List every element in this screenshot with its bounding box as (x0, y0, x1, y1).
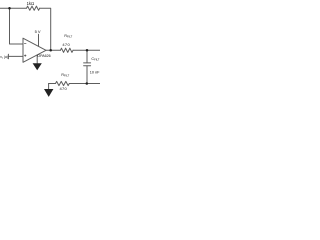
label OPA626 (37, 54, 50, 58)
op-amp U1 triangle (23, 38, 46, 62)
label 10nF (90, 71, 100, 75)
label 1kΩ (27, 1, 35, 6)
ground op-amp (33, 63, 42, 70)
label RFILT bottom (61, 73, 69, 78)
node junction dot A (8, 7, 11, 10)
wire capacitor top stem (86, 50, 88, 62)
node junction dot output (49, 49, 52, 52)
label plus input (24, 55, 26, 57)
svg-text:RFILT: RFILT (64, 34, 72, 39)
node junction dot cap-bottom (86, 82, 89, 85)
wire bottom rail left (49, 83, 56, 85)
svg-text:v₁ (a): v₁ (a) (0, 55, 8, 59)
node junction dot filter (86, 49, 89, 52)
svg-text:5 V: 5 V (35, 29, 41, 34)
svg-text:OPA626: OPA626 (37, 54, 50, 58)
wire left feedback vertical (10, 8, 24, 44)
capacitor CFILT plates (84, 63, 91, 66)
wire output rail left (46, 49, 60, 51)
label 470 bottom (60, 86, 68, 91)
svg-text:CFILT: CFILT (91, 57, 99, 62)
wire output rail right (73, 49, 100, 51)
wire bottom rail right (70, 83, 100, 85)
resistor RFILT zigzag (60, 48, 73, 52)
resistor R bottom 470 zigzag (56, 81, 70, 85)
wire bottom ground stem (48, 84, 50, 90)
wire top-left input segment (0, 7, 27, 9)
svg-text:RFILT: RFILT (61, 73, 69, 78)
wire capacitor bottom stem (86, 66, 88, 84)
label minus input (24, 42, 26, 44)
node input terminal tick (7, 54, 9, 59)
svg-text:10 nF: 10 nF (90, 71, 100, 75)
resistor R1 1kΩ zigzag (27, 6, 40, 10)
label 5V (35, 29, 41, 34)
wire non-inverting input (8, 55, 23, 57)
svg-text:1kΩ: 1kΩ (27, 1, 35, 6)
wire 5V supply (38, 34, 40, 46)
label CFILT (91, 57, 99, 62)
ground bottom resistor (44, 89, 53, 97)
wire top feedback to corner (40, 8, 51, 50)
label RFILT top (64, 34, 72, 39)
label 470 top (62, 42, 70, 47)
wire op-amp ground stem (36, 55, 38, 63)
label vin (0, 55, 8, 59)
svg-text:470: 470 (62, 42, 70, 47)
svg-text:470: 470 (60, 86, 68, 91)
